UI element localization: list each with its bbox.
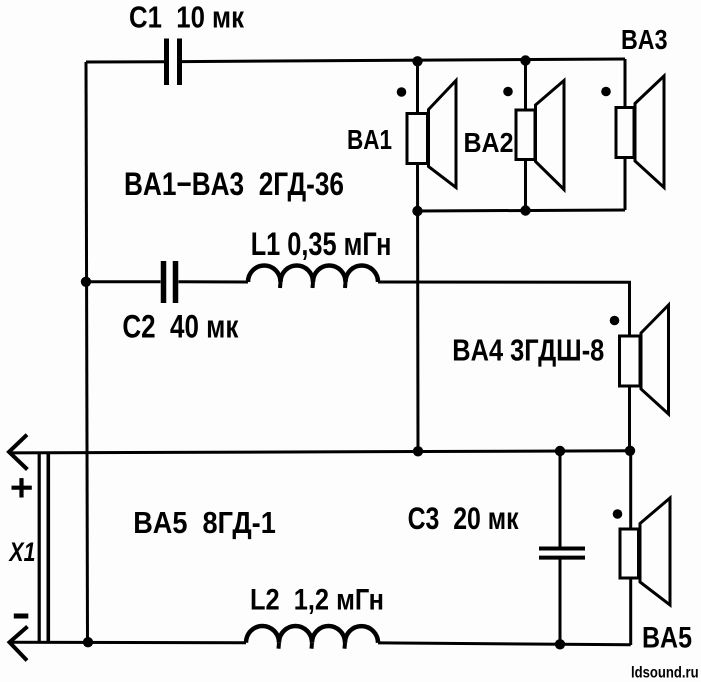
svg-text:C3 20 мк: C3 20 мк (408, 500, 519, 536)
svg-text:BA1: BA1 (347, 124, 392, 155)
svg-text:BA4 3ГДШ-8: BA4 3ГДШ-8 (452, 333, 604, 368)
capacitor C3 (539, 549, 585, 558)
svg-text:X1: X1 (8, 537, 36, 567)
label L1 value (251, 226, 392, 262)
svg-text:BA2: BA2 (464, 127, 514, 158)
svg-text:BA3: BA3 (621, 24, 668, 55)
label BA2 (464, 127, 514, 158)
node bottom C3 (555, 639, 565, 649)
node third BA4 (625, 446, 635, 456)
node bottom BA1 (412, 206, 422, 216)
node third C3 (555, 446, 565, 456)
polarity dot BA5 (613, 509, 623, 519)
label minus (14, 614, 28, 619)
wire BA5 lower vertical (629, 578, 632, 645)
wire group bottom (418, 210, 626, 211)
polarity dot BA4 (610, 316, 620, 326)
node bottom bus (83, 637, 93, 647)
node bus C2 (81, 277, 91, 287)
svg-text:BA1−BA3 2ГД-36: BA1−BA3 2ГД-36 (124, 166, 344, 202)
svg-text:L2 1,2 мГн: L2 1,2 мГн (250, 584, 384, 617)
label X1 (8, 537, 36, 567)
label plus (12, 478, 32, 497)
node top BA1 (412, 56, 422, 66)
wire bottom left (10, 641, 247, 644)
speaker BA4 (620, 305, 669, 414)
label C2 value (122, 309, 239, 345)
node top BA2 (520, 55, 530, 65)
speaker BA1 (407, 81, 456, 188)
svg-text:L1 0,35 мГн: L1 0,35 мГн (251, 226, 392, 262)
wire BA5 upper vertical (629, 451, 632, 529)
wire bottom right (378, 643, 631, 645)
wire BA4 lower vertical (628, 386, 631, 451)
wire third (plus) (9, 451, 631, 453)
svg-text:C2 40 мк: C2 40 мк (122, 309, 239, 345)
speaker BA2 (516, 81, 564, 190)
node bottom BA2 (520, 205, 530, 215)
inductor L2 (246, 626, 378, 649)
label BA1 (347, 124, 392, 155)
capacitor C2 (164, 261, 176, 303)
label L2 value (250, 584, 384, 617)
wire left bus (86, 62, 88, 642)
wire BA3 vertical (624, 59, 627, 210)
wire top-left to C1 (86, 60, 165, 63)
wire C1 to BA3 top (182, 59, 626, 62)
wire C2 to L1 (179, 280, 249, 283)
svg-text:BA5: BA5 (642, 622, 692, 655)
polarity dot BA3 (601, 87, 611, 97)
speaker BA3 (616, 76, 664, 188)
wire L1 to BA4 corner (378, 282, 630, 336)
label C1 value (129, 0, 244, 35)
wire C3 upper (559, 451, 562, 547)
label BA4 (452, 333, 604, 368)
wire BA2 vertical (524, 61, 527, 211)
svg-text:ldsound.ru: ldsound.ru (631, 665, 699, 682)
watermark ldsound.ru (631, 665, 699, 682)
svg-text:C1 10 мк: C1 10 мк (129, 0, 244, 35)
wire second branch left (86, 280, 161, 283)
inductor L1 (248, 266, 378, 289)
wire C3 lower (559, 560, 562, 645)
capacitor C1 (167, 39, 180, 86)
polarity dot BA2 (503, 87, 513, 97)
node third BA1 (413, 446, 423, 456)
label BA1-BA3 group (124, 166, 344, 202)
svg-text:BA5 8ГД-1: BA5 8ГД-1 (133, 505, 276, 540)
label BA5 (642, 622, 692, 655)
polarity dot BA1 (397, 87, 407, 97)
speaker BA5 (620, 498, 670, 605)
wire BA1 vertical (416, 61, 420, 451)
label BA3 (621, 24, 668, 55)
connector X1 (9, 435, 48, 661)
label C3 value (408, 500, 519, 536)
label BA5 group (133, 505, 276, 540)
